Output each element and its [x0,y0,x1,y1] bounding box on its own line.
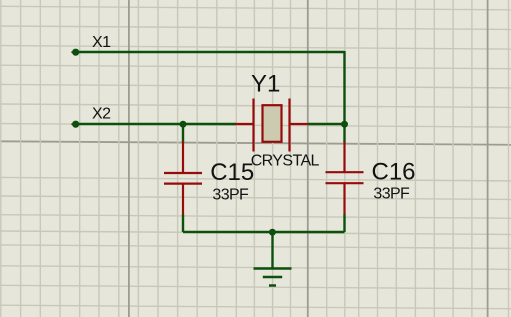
label C16 [372,158,416,185]
wire [182,215,184,233]
svg-text:C16: C16 [372,158,416,185]
junction [341,121,348,128]
wire [343,215,345,233]
svg-text:X1: X1 [92,34,111,51]
svg-text:Y1: Y1 [251,71,280,98]
wire [77,123,237,125]
svg-text:C15: C15 [210,159,254,186]
wire [182,124,184,143]
wire [308,123,345,125]
crystal Y1 [236,99,309,152]
junction [180,121,187,128]
wire [271,232,273,268]
junction [269,229,276,236]
label CRYSTAL [251,153,320,170]
wire [343,124,345,143]
terminal X1 [71,49,79,56]
svg-text:33PF: 33PF [212,187,249,204]
label 33PF [212,187,249,204]
label Y1 [251,71,280,98]
label C15 [210,159,254,186]
label X1 [92,34,111,51]
capacitor C15 [164,142,202,216]
wire [77,51,345,53]
label 33PF [373,185,410,202]
terminal X2 [71,121,79,128]
svg-text:X2: X2 [92,106,111,123]
capacitor C16 [326,142,364,216]
ground [254,269,292,286]
label X2 [92,106,111,123]
svg-text:CRYSTAL: CRYSTAL [251,153,320,170]
wire [343,51,345,124]
svg-text:33PF: 33PF [373,185,410,202]
wire [183,231,345,233]
